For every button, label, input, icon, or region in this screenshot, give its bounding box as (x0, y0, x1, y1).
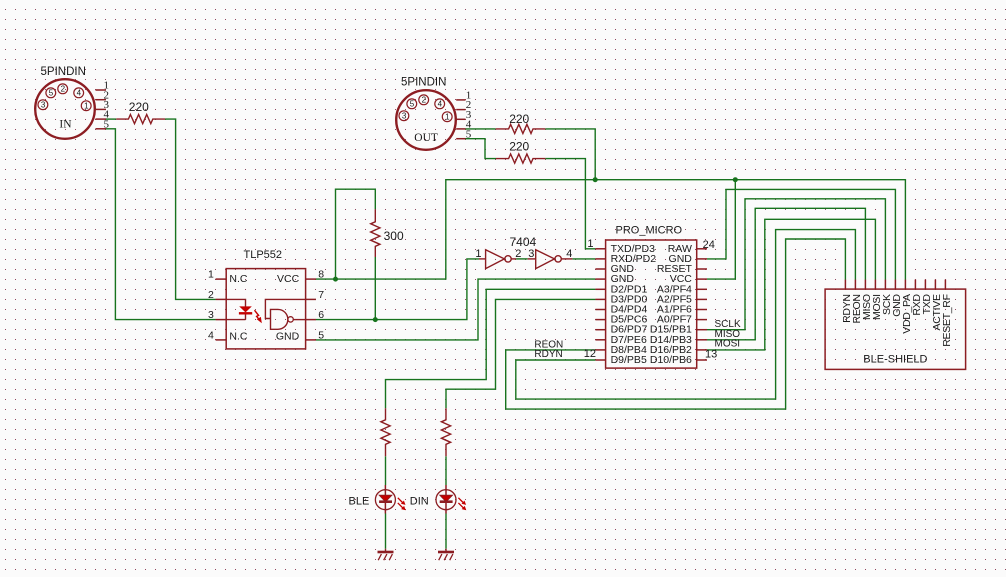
svg-text:7: 7 (318, 289, 324, 301)
junction node at 335.5,279.1 (333, 277, 338, 282)
junction node at 595.2,179.7 (593, 177, 598, 182)
svg-text:BLE-SHIELD: BLE-SHIELD (863, 354, 927, 366)
svg-text:1: 1 (587, 238, 593, 250)
connector X2 5PINDIN OUT (396, 77, 472, 150)
wire gate2 out to RXD/PD2 (572, 258, 595, 260)
svg-text:DIN: DIN (410, 496, 429, 508)
svg-text:4: 4 (438, 100, 443, 109)
wire R2 to junction at 595 (545, 129, 595, 180)
wire net MISO: D14/PB3 to BLE MISO (707, 208, 865, 339)
svg-text:2: 2 (61, 85, 66, 94)
svg-text:12: 12 (584, 348, 596, 360)
svg-text:N.C: N.C (229, 331, 248, 343)
U1 internal LED (226, 299, 252, 319)
svg-text:GND: GND (276, 331, 300, 343)
wire TLP552 pin5 GND to PRO_MICRO GND (316, 279, 595, 340)
svg-text:4: 4 (208, 329, 214, 341)
svg-text:1: 1 (84, 101, 89, 110)
svg-text:3: 3 (402, 111, 407, 120)
svg-text:RDYN: RDYN (534, 349, 562, 360)
ground GND1 (378, 549, 394, 561)
svg-text:5: 5 (466, 128, 472, 140)
svg-text:1: 1 (445, 112, 450, 121)
junction node at 735.3,179.7 (733, 177, 738, 182)
svg-text:8: 8 (318, 269, 324, 281)
wire 300 bottom to pin6 node (374, 257, 376, 320)
resistor R1 220 (116, 100, 165, 124)
svg-text:7404: 7404 (510, 235, 537, 249)
svg-text:220: 220 (509, 112, 529, 126)
LED1 BLE (349, 485, 406, 514)
svg-text:RESET_RF: RESET_RF (941, 294, 953, 346)
wire VCC junction down to PRO_MICRO VCC (707, 180, 735, 279)
wire net VCC: TLP552 pin8 to BLE VDD_PA (316, 180, 905, 280)
svg-text:3: 3 (41, 100, 46, 109)
resistor R4 300 (371, 209, 404, 257)
wire net D2: PRO_MICRO D2/PD1 to BLE LED resistor (386, 289, 596, 408)
resistor R3 220 (496, 139, 545, 163)
microcontroller U3 PRO_MICRO (584, 224, 718, 368)
svg-text:220: 220 (509, 139, 529, 153)
wire net SCLK: D15/PB1 to BLE SCK (707, 199, 885, 330)
wire IN pin5 to TLP552 pin3 (106, 129, 216, 320)
inverter U2B 7404 (528, 248, 573, 268)
svg-text:5: 5 (410, 100, 415, 109)
svg-text:OUT: OUT (414, 132, 438, 144)
wire TLP552 pin6 to gate1 input (316, 259, 479, 320)
svg-text:D10/PB6: D10/PB6 (650, 354, 692, 366)
ground GND2 (438, 549, 454, 561)
LED2 DIN (410, 485, 467, 514)
svg-text:VCC: VCC (277, 273, 300, 285)
svg-text:5PINDIN: 5PINDIN (401, 77, 446, 89)
inverter U2A 7404 (475, 235, 536, 269)
resistor R5 (BLE LED) (381, 408, 390, 456)
svg-text:1: 1 (208, 269, 214, 281)
module U4 BLE-SHIELD (825, 280, 966, 370)
wire DIN LED to ground (445, 514, 447, 549)
svg-text:N.C: N.C (229, 273, 248, 285)
svg-text:4: 4 (566, 248, 572, 260)
svg-text:13: 13 (705, 349, 717, 361)
wire DIN resistor to LED (445, 456, 447, 485)
svg-text:2: 2 (208, 289, 214, 301)
wire net REON: D8/PB4 to BLE REON (506, 239, 846, 409)
resistor R2 220 (496, 112, 546, 133)
svg-text:1: 1 (475, 248, 481, 260)
svg-text:MOSI: MOSI (715, 338, 741, 349)
wire OUT pin4 to R2 (466, 128, 496, 130)
connector X1 5PINDIN IN (35, 66, 109, 139)
wire OUT pin5 to R3 (466, 139, 497, 159)
svg-text:6: 6 (318, 309, 324, 321)
svg-text:5: 5 (49, 89, 54, 98)
resistor R6 (DIN LED) (441, 408, 450, 456)
wire BLE LED to ground (385, 514, 387, 549)
U1 internal gate (265, 299, 305, 329)
svg-text:5: 5 (104, 118, 110, 130)
wire net D3: PRO_MICRO D3/PD0 to DIN LED resistor (446, 299, 595, 408)
svg-text:D9/PB5: D9/PB5 (611, 354, 647, 366)
wire IN pin4 to R1 (106, 118, 116, 120)
svg-text:4: 4 (77, 89, 82, 98)
U1 light arrow (255, 310, 262, 323)
svg-text:24: 24 (703, 239, 715, 251)
wire R1 to TLP552 pin2 (165, 119, 216, 299)
wire net MOSI: D16/PB2 to BLE MOSI (707, 219, 875, 350)
svg-text:5: 5 (318, 329, 324, 341)
wire between 7404 gates (516, 258, 528, 260)
wire 300 pullup top loop (336, 189, 376, 279)
junction node at 375.3,319.6 (373, 317, 378, 322)
svg-text:PRO_MICRO: PRO_MICRO (616, 224, 683, 236)
wire net GND: PRO_MICRO GND to BLE GND (707, 189, 895, 279)
svg-text:IN: IN (59, 119, 72, 131)
svg-text:BLE: BLE (349, 496, 370, 508)
wire BLE resistor to LED (385, 456, 387, 485)
svg-text:2: 2 (515, 248, 521, 260)
svg-text:220: 220 (129, 100, 149, 114)
svg-text:3: 3 (528, 248, 534, 260)
svg-text:3: 3 (208, 309, 214, 321)
svg-text:300: 300 (384, 229, 404, 243)
wire net RDYN: D9/PB5 to BLE RDYN (516, 230, 856, 400)
svg-text:TLP552: TLP552 (244, 249, 283, 261)
optocoupler U1 TLP552 (208, 249, 324, 349)
wire R3 to PRO_MICRO pin1 TXD/PD3 (545, 159, 595, 249)
svg-text:2: 2 (422, 96, 427, 105)
svg-text:5PINDIN: 5PINDIN (41, 66, 86, 78)
